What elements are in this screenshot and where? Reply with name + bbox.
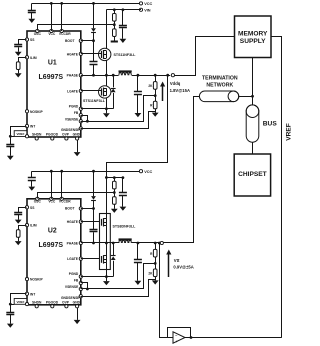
node op-amp output bbox=[190, 336, 193, 339]
ground below U1 SS cap bbox=[15, 47, 22, 56]
node divider top U1 bbox=[154, 74, 157, 77]
capacitor on U1 SS bbox=[14, 45, 22, 47]
U1 pin BOOT label bbox=[65, 39, 75, 43]
svg-text:INT: INT bbox=[30, 125, 35, 129]
U2 pin PGND bbox=[69, 272, 83, 278]
wire high-side drain U1 bbox=[106, 10, 108, 49]
svg-text:VIN: VIN bbox=[144, 9, 151, 13]
capacitor on U2 VREF bbox=[6, 313, 14, 315]
svg-text:TERMINATION: TERMINATION bbox=[202, 76, 238, 82]
wire PHASE U2 bbox=[81, 242, 119, 244]
ground below divider U1 bbox=[152, 109, 159, 117]
svg-text:PGND: PGND bbox=[69, 272, 79, 276]
wire Vddq to memory supply bbox=[175, 37, 235, 76]
U1 pin SHDN bbox=[32, 133, 42, 140]
transistor Q3a upper bbox=[102, 218, 107, 226]
block CHIPSET bbox=[234, 154, 270, 196]
wire Q2 drain bbox=[106, 75, 108, 86]
U2 pin INT bbox=[25, 292, 35, 296]
svg-text:PHASE: PHASE bbox=[67, 241, 79, 245]
node boot branch U2 bbox=[92, 170, 95, 173]
U2 pin PGOOD bbox=[46, 300, 59, 308]
svg-text:SHDN: SHDN bbox=[32, 300, 42, 304]
label VREF vertical bbox=[286, 123, 293, 141]
capacitor output U1 bbox=[134, 75, 142, 94]
wire U1 VCC rail bbox=[32, 3, 140, 5]
arrow Vddq annotation bbox=[160, 82, 165, 102]
svg-text:PGOOD: PGOOD bbox=[46, 133, 59, 137]
svg-text:VCC: VCC bbox=[144, 170, 152, 174]
inductor L U2 bbox=[119, 240, 132, 244]
wire memory supply down bbox=[252, 58, 254, 105]
wire Q3b drain bbox=[106, 243, 108, 256]
svg-text:VCC: VCC bbox=[48, 200, 56, 204]
U1 pin PGND bbox=[69, 104, 83, 110]
wire U2 VCC rail bbox=[32, 171, 140, 173]
capacitor input U2 bbox=[119, 178, 127, 196]
wire boot cap to phase U2 bbox=[92, 232, 95, 244]
U2 pin SHDN bbox=[32, 300, 42, 308]
svg-text:ILIM: ILIM bbox=[30, 56, 37, 60]
svg-text:1.8V@15A: 1.8V@15A bbox=[170, 88, 190, 93]
transistor Q2 STS11NF3LL low-side bbox=[99, 86, 111, 98]
node boot branch U1 bbox=[92, 2, 95, 5]
wire LGATE U2 bbox=[81, 258, 100, 260]
svg-text:GND: GND bbox=[73, 300, 81, 304]
node U2 rail junction bbox=[105, 176, 108, 179]
svg-text:PHASE: PHASE bbox=[67, 74, 79, 78]
U1 pin VCC bbox=[48, 29, 56, 36]
ground arrow below U2 R chain bbox=[111, 204, 118, 213]
svg-text:2K: 2K bbox=[148, 271, 153, 275]
wire HGATE U1 bbox=[81, 53, 102, 55]
svg-text:NOSKIP: NOSKIP bbox=[30, 110, 43, 114]
svg-text:VCCDR: VCCDR bbox=[59, 200, 71, 204]
resistor divider bottom 2K U2 bbox=[148, 269, 157, 277]
node low-side source U1 bbox=[105, 107, 108, 110]
terminal Vtt bbox=[160, 241, 163, 244]
svg-text:GNDSENSE: GNDSENSE bbox=[61, 128, 80, 132]
svg-text:FB: FB bbox=[74, 111, 79, 115]
capacitor U1 VCC decoupling bbox=[28, 3, 36, 12]
U1 pin LGATE bbox=[67, 89, 82, 93]
wire boot to BOOT pin U2 bbox=[81, 200, 95, 229]
terminal VCC U2 bbox=[139, 170, 152, 174]
svg-text:U2: U2 bbox=[48, 227, 57, 234]
node FB bracket U2 bbox=[81, 283, 89, 291]
svg-text:FB: FB bbox=[74, 279, 79, 283]
node VCC pin stub U1 bbox=[50, 2, 53, 31]
svg-text:HGATE: HGATE bbox=[67, 52, 79, 56]
wire boot upper U1 bbox=[93, 3, 95, 28]
wire memory supply to VREF rail bbox=[271, 37, 282, 338]
node Vddq riser bbox=[166, 74, 169, 77]
node termination junction bbox=[251, 95, 254, 98]
wire U2 INT bbox=[11, 294, 27, 313]
wire output U1 bbox=[132, 75, 171, 77]
svg-text:BOOT: BOOT bbox=[65, 207, 75, 211]
diode body low-side U2 bbox=[111, 256, 116, 261]
U2 pin OSC bbox=[34, 197, 42, 204]
ground at U1 GND pin bbox=[74, 140, 81, 156]
svg-text:VREF: VREF bbox=[16, 300, 24, 304]
svg-text:CHIPSET: CHIPSET bbox=[238, 171, 267, 178]
svg-text:VCC: VCC bbox=[48, 32, 56, 36]
wire op-amp output to VREF rail bbox=[185, 337, 282, 339]
U1 pin NOSKIP bbox=[25, 110, 43, 114]
U2 pin OVP bbox=[62, 300, 70, 308]
diode bootstrap U1 bbox=[91, 28, 96, 32]
label Q1 bbox=[114, 53, 137, 57]
node divider top U2 bbox=[154, 242, 157, 245]
VREF label box U1 bbox=[10, 131, 28, 138]
U1 pin GNDSENSE bbox=[61, 127, 82, 132]
svg-text:2K: 2K bbox=[148, 84, 153, 88]
capacitor output U2 bbox=[134, 243, 142, 263]
wire Q1 source to phase bbox=[105, 60, 108, 76]
wire U1 SS bbox=[19, 40, 27, 45]
wire bus to chipset bbox=[252, 142, 254, 154]
ground below U1 VCC cap bbox=[28, 13, 35, 23]
svg-text:SUPPLY: SUPPLY bbox=[240, 38, 266, 45]
U2 pin NOSKIP bbox=[25, 278, 43, 282]
ground below input cap U1 bbox=[120, 28, 127, 43]
svg-text:L6997S: L6997S bbox=[39, 242, 64, 249]
wire Q3a drain bbox=[106, 214, 108, 219]
U2 pin BOOT bbox=[79, 207, 82, 210]
wire Vddq feed down to U2 bbox=[107, 76, 168, 178]
U2 pin GNDSENSE bbox=[61, 295, 82, 300]
wire boot cap to phase U1 bbox=[92, 64, 95, 76]
bus symbol bbox=[246, 105, 259, 142]
svg-text:VSENSE: VSENSE bbox=[65, 117, 79, 121]
wire VIN rail bbox=[106, 9, 141, 11]
node output cap U1 bbox=[137, 74, 140, 77]
node FB divider mid U2 bbox=[154, 257, 157, 269]
U2 pin VCCDR bbox=[59, 197, 71, 204]
node U1 VREF junction bbox=[9, 135, 12, 138]
label Vtt bbox=[173, 258, 193, 270]
resistor divider top R U2 bbox=[150, 243, 157, 257]
wire U2 SS bbox=[19, 208, 27, 213]
U1 pin HGATE bbox=[67, 52, 83, 56]
label TERMINATION NETWORK bbox=[202, 76, 238, 89]
svg-text:VREF: VREF bbox=[16, 132, 24, 136]
U1 pin PGOOD bbox=[46, 133, 59, 140]
ground below input cap U2 bbox=[120, 196, 127, 211]
resistor chain lower U1 bbox=[113, 29, 117, 37]
ground below U2 ILIM resistor bbox=[15, 237, 22, 245]
ground below output cap U2 bbox=[135, 262, 142, 285]
svg-text:NETWORK: NETWORK bbox=[206, 82, 233, 88]
node VCCDR pin stub U2 bbox=[60, 170, 63, 199]
svg-text:OSC: OSC bbox=[34, 32, 42, 36]
U1 pin OSC bbox=[34, 29, 42, 36]
svg-text:VCC: VCC bbox=[144, 2, 152, 6]
svg-text:BUS: BUS bbox=[263, 120, 278, 127]
U1 pin ILIM bbox=[25, 56, 36, 60]
ground below U1 VREF cap bbox=[7, 147, 14, 160]
package box Q3 dual MOSFET bbox=[100, 214, 111, 270]
U1 pin VCCDR bbox=[59, 29, 71, 36]
U1 pin INT bbox=[25, 124, 35, 128]
transistor Q3b lower bbox=[102, 255, 107, 263]
node FB bracket U1 bbox=[81, 116, 89, 123]
ground below U1 ILIM resistor bbox=[15, 70, 22, 78]
U1 pin SS bbox=[25, 38, 35, 42]
svg-text:STS11NF3LL: STS11NF3LL bbox=[83, 99, 106, 103]
svg-text:VREF: VREF bbox=[286, 123, 293, 141]
wire boot upper U2 bbox=[93, 171, 95, 196]
label BUS bbox=[263, 120, 278, 127]
svg-text:VCCDR: VCCDR bbox=[59, 32, 71, 36]
node rail cap U1 bbox=[122, 8, 125, 11]
node VCC pin stub U2 bbox=[50, 170, 53, 199]
svg-text:PGOOD: PGOOD bbox=[46, 300, 59, 304]
IC U2 L6997S bbox=[27, 199, 81, 305]
wire U1 OSC bbox=[38, 25, 115, 31]
terminal VCC U1 bbox=[139, 2, 152, 6]
capacitor on U1 VREF bbox=[6, 145, 14, 147]
diode body low-side U1 bbox=[111, 89, 116, 93]
resistor chain upper U1 bbox=[113, 10, 117, 21]
node FB divider mid U1 bbox=[154, 89, 157, 101]
U2 pin LGATE bbox=[67, 257, 82, 261]
wire U2 ILIM bbox=[19, 226, 27, 230]
wire op-amp input from Vtt bbox=[160, 243, 173, 338]
wire PGND U1 bbox=[81, 108, 113, 110]
block MEMORY SUPPLY bbox=[235, 16, 272, 58]
U2 pin VSENSE bbox=[65, 285, 82, 291]
node OSC divider mid U2 bbox=[113, 189, 116, 197]
ground below low-side source U1 bbox=[103, 109, 110, 118]
U2 pin FB bbox=[74, 279, 83, 285]
capacitor bootstrap U2 bbox=[90, 230, 98, 232]
wire termination to bus node bbox=[239, 96, 253, 98]
U2 pin VCC bbox=[48, 197, 56, 204]
svg-text:LGATE: LGATE bbox=[67, 89, 79, 93]
diode bootstrap U2 bbox=[91, 196, 96, 200]
label Vddq bbox=[170, 81, 190, 93]
svg-text:OSC: OSC bbox=[34, 200, 42, 204]
wire input rail U1 bbox=[106, 9, 123, 11]
svg-text:STS8DNF3LL: STS8DNF3LL bbox=[113, 224, 137, 228]
svg-text:Vddq: Vddq bbox=[170, 81, 181, 86]
svg-text:U1: U1 bbox=[48, 60, 57, 67]
wire output U2 bbox=[132, 242, 171, 244]
IC U1 L6997S bbox=[27, 31, 81, 137]
svg-text:INT: INT bbox=[30, 292, 35, 296]
U2 pin ILIM bbox=[25, 224, 36, 228]
wire U1 INT bbox=[11, 127, 27, 145]
wire HGATE U2 bbox=[81, 221, 100, 223]
resistor divider top 2K U1 bbox=[148, 75, 157, 89]
U1 pin BOOT bbox=[79, 39, 82, 42]
svg-text:Vtt: Vtt bbox=[174, 258, 180, 263]
node op-amp branch bbox=[158, 242, 161, 245]
wire U2 OSC bbox=[38, 193, 115, 199]
node output cap U2 bbox=[137, 242, 140, 245]
wire Vtt to termination bbox=[164, 97, 200, 243]
wire LGATE U1 bbox=[81, 90, 102, 92]
svg-text:OVP: OVP bbox=[62, 133, 70, 137]
U2 pin HGATE bbox=[67, 220, 83, 224]
wire U1 ILIM bbox=[19, 58, 27, 62]
U1 pin GND bbox=[73, 133, 81, 140]
svg-text:ILIM: ILIM bbox=[30, 224, 37, 228]
node low-side source U2 bbox=[105, 275, 108, 278]
resistor on U1 ILIM bbox=[16, 62, 20, 70]
svg-text:STS11NF3LL: STS11NF3LL bbox=[114, 53, 137, 57]
U1 pin PHASE bbox=[67, 74, 83, 78]
ground below output cap U1 bbox=[135, 95, 142, 118]
wire Q3b source bbox=[106, 263, 108, 277]
svg-text:BOOT: BOOT bbox=[65, 39, 75, 43]
wire PHASE U1 bbox=[81, 75, 119, 77]
terminal VIN bbox=[139, 8, 150, 12]
capacitor input U1 bbox=[119, 10, 127, 28]
svg-text:VSENSE: VSENSE bbox=[65, 285, 79, 289]
label Q2 bbox=[83, 99, 106, 103]
label Q3 STS8DNF3LL bbox=[113, 224, 137, 228]
wire Q2 source bbox=[106, 98, 108, 109]
resistor on U2 ILIM bbox=[16, 230, 20, 238]
wire FB sense U1 bbox=[81, 96, 156, 122]
wire FB sense U2 bbox=[81, 264, 156, 289]
ground below U2 VREF cap bbox=[7, 315, 14, 328]
svg-text:LGATE: LGATE bbox=[67, 257, 79, 261]
wire boot to BOOT pin U1 bbox=[81, 33, 95, 62]
svg-text:L6997S: L6997S bbox=[39, 74, 64, 81]
transistor Q1 STS11NF3LL high-side bbox=[99, 48, 111, 60]
capacitor bootstrap U1 bbox=[90, 62, 98, 65]
node U2 VREF junction bbox=[9, 303, 12, 306]
svg-text:PGND: PGND bbox=[69, 104, 79, 108]
resistor chain upper U2 bbox=[113, 178, 117, 189]
wire U2 rail from Vddq bbox=[106, 178, 108, 214]
ground below low-side source U2 bbox=[103, 277, 110, 286]
wire body diode bracket U2 bbox=[112, 242, 115, 277]
capacitor U2 VCC decoupling bbox=[28, 171, 36, 180]
svg-text:OVP: OVP bbox=[62, 300, 70, 304]
U1 pin OVP bbox=[62, 133, 70, 140]
U2 pin GND bbox=[73, 300, 81, 308]
U1 pin VSENSE bbox=[65, 117, 82, 122]
resistor chain lower U2 bbox=[113, 197, 117, 205]
wire GNDSENSE U1 bbox=[81, 112, 156, 129]
ground T-bar below U1 R chain bbox=[111, 37, 118, 42]
node OSC divider mid U1 bbox=[113, 21, 116, 29]
op-amp U3 buffer bbox=[173, 332, 185, 344]
wire GNDSENSE U2 bbox=[81, 280, 156, 297]
wire PGND U2 bbox=[81, 276, 113, 278]
svg-text:NOSKIP: NOSKIP bbox=[30, 278, 43, 282]
wire body diode bracket U1 bbox=[112, 74, 115, 109]
svg-text:SHDN: SHDN bbox=[32, 133, 42, 137]
wire op-amp feedback bbox=[168, 328, 191, 338]
ground below divider U2 bbox=[152, 277, 159, 285]
U2 pin BOOT label bbox=[65, 207, 75, 211]
node VCCDR pin stub U1 bbox=[60, 2, 63, 31]
ground at U2 GND pin bbox=[74, 308, 81, 324]
node rail R chain U1 bbox=[113, 8, 116, 11]
capacitor on U2 SS bbox=[14, 213, 22, 215]
node rail R chain U2 bbox=[113, 176, 116, 179]
svg-text:GND: GND bbox=[73, 133, 81, 137]
U2 pin SS bbox=[25, 206, 35, 210]
svg-text:MEMORY: MEMORY bbox=[238, 31, 268, 38]
wire Q3a source to phase bbox=[105, 226, 108, 245]
inductor L U1 bbox=[119, 72, 132, 76]
ground below U2 SS cap bbox=[15, 215, 22, 224]
ground below U2 VCC cap bbox=[28, 181, 35, 191]
resistor divider bottom R U1 bbox=[150, 101, 157, 109]
VREF label box U2 bbox=[10, 299, 28, 306]
terminal Vddq bbox=[171, 74, 174, 77]
U2 pin PHASE bbox=[67, 241, 83, 245]
svg-text:0.9V@±5A: 0.9V@±5A bbox=[173, 265, 193, 270]
node rail cap U2 bbox=[122, 176, 125, 179]
wire input rail U2 bbox=[106, 177, 123, 179]
svg-text:GNDSENSE: GNDSENSE bbox=[61, 296, 80, 300]
U1 pin FB bbox=[74, 111, 83, 117]
arrow Vtt annotation bbox=[166, 250, 171, 278]
termination network symbol bbox=[199, 91, 238, 102]
svg-text:HGATE: HGATE bbox=[67, 220, 79, 224]
